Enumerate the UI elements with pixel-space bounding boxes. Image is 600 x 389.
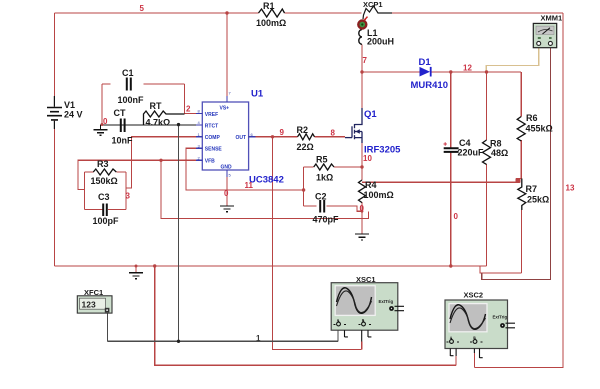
svg-text:150kΩ: 150kΩ [91,176,118,186]
svg-text:XMM1: XMM1 [541,14,563,23]
svg-text:12: 12 [463,64,472,73]
svg-text:C4: C4 [459,138,471,148]
svg-text:C1: C1 [122,68,134,78]
svg-text:123: 123 [82,299,96,309]
svg-text:ExtTrig: ExtTrig [493,315,508,320]
svg-text:22Ω: 22Ω [297,142,314,152]
svg-text:25kΩ: 25kΩ [527,195,549,205]
svg-text:48Ω: 48Ω [491,148,508,158]
svg-text:11: 11 [245,181,254,190]
svg-text:0: 0 [454,212,459,221]
svg-text:13: 13 [566,184,575,193]
svg-text:R2: R2 [297,125,309,135]
svg-text:2: 2 [186,105,191,114]
svg-text:SENSE: SENSE [205,147,223,153]
svg-text:R7: R7 [526,184,538,194]
svg-text:XSC2: XSC2 [464,291,484,300]
svg-text:1: 1 [256,334,261,343]
svg-text:R1: R1 [263,1,275,11]
svg-text:R4: R4 [365,180,377,190]
svg-text:4.7kΩ: 4.7kΩ [146,118,171,128]
svg-text:R8: R8 [490,139,502,149]
svg-text:8: 8 [331,129,336,138]
svg-text:COMP: COMP [205,135,221,141]
svg-text:C2: C2 [315,192,327,202]
svg-text:CT: CT [114,108,126,118]
svg-text:100mΩ: 100mΩ [364,190,394,200]
svg-text:R6: R6 [526,113,538,123]
svg-text:UC3842: UC3842 [249,175,284,186]
svg-text:0: 0 [224,189,229,198]
svg-text:RT: RT [150,101,162,111]
svg-text:VREF: VREF [205,112,218,118]
svg-text:470pF: 470pF [313,215,340,225]
svg-text:1kΩ: 1kΩ [316,173,333,183]
svg-text:VS+: VS+ [220,106,230,112]
svg-text:0: 0 [103,117,108,126]
svg-text:XCP1: XCP1 [363,0,383,9]
svg-text:U1: U1 [251,89,264,100]
svg-text:RTCT: RTCT [205,124,218,130]
svg-text:R3: R3 [97,159,109,169]
svg-text:24 V: 24 V [64,110,83,120]
svg-text:V1: V1 [64,100,75,110]
svg-text:100pF: 100pF [93,216,120,226]
svg-text:C3: C3 [98,192,110,202]
svg-text:9: 9 [280,128,285,137]
svg-text:455kΩ: 455kΩ [526,124,553,134]
svg-text:3: 3 [126,192,131,201]
svg-text:7: 7 [363,56,368,65]
svg-text:10: 10 [363,154,372,163]
svg-text:Q1: Q1 [364,109,377,120]
svg-text:ExtTrig: ExtTrig [379,299,394,304]
svg-text:R5: R5 [316,155,328,165]
svg-text:D1: D1 [419,57,432,68]
svg-text:MUR410: MUR410 [411,80,449,91]
svg-text:GND: GND [221,165,233,171]
svg-text:100nF: 100nF [118,95,145,105]
svg-text:220uF: 220uF [458,148,485,158]
svg-text:0: 0 [360,204,365,213]
svg-text:5: 5 [140,4,145,13]
svg-text:VFB: VFB [205,159,215,165]
svg-text:OUT: OUT [236,135,247,141]
svg-text:100mΩ: 100mΩ [256,18,286,28]
svg-text:10nF: 10nF [112,136,134,146]
svg-text:200uH: 200uH [367,37,394,47]
